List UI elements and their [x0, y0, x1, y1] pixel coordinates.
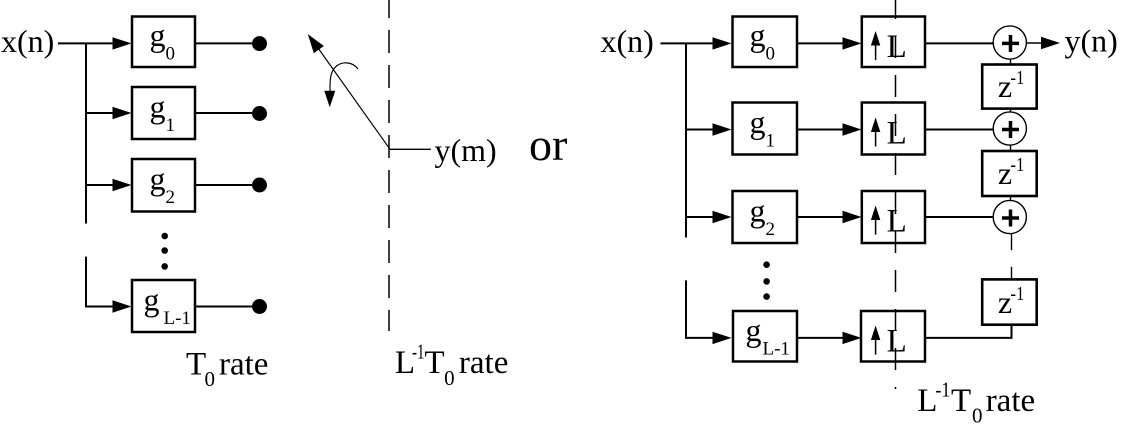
filter block right g2 — [733, 191, 798, 243]
delay block z2 — [982, 151, 1036, 196]
commutator contact dot rowL-1 — [252, 299, 267, 314]
upsampler block row1 — [862, 103, 925, 155]
svg-text:-1: -1 — [1010, 284, 1024, 305]
svg-text:L: L — [887, 204, 907, 240]
wire x(n) input horizontal — [58, 42, 118, 44]
wire x(n) input horizontal right — [661, 42, 719, 44]
rotation direction arc — [330, 63, 358, 91]
svg-text:0: 0 — [972, 404, 983, 428]
label L-1 T0 rate right — [917, 378, 1035, 428]
delay block z1 — [982, 65, 1036, 109]
wire upsamplerL-1 to delay z3 — [925, 325, 1012, 338]
svg-text:0: 0 — [205, 367, 216, 391]
svg-text:g: g — [750, 17, 766, 53]
filter block right g1 — [733, 103, 798, 155]
wire gL-1 output — [195, 306, 252, 308]
wire branch to g2 — [86, 184, 118, 186]
wire g1 output — [195, 112, 252, 114]
arrowhead into right g1 — [713, 123, 732, 135]
arrowhead into upsampler1 — [843, 123, 862, 135]
svg-text:g: g — [144, 282, 160, 318]
wire right g0 to upsampler0 — [797, 42, 848, 44]
wire adder1 to y(n) — [1026, 42, 1046, 44]
wire adder1 to z1 — [1010, 59, 1012, 65]
adder 2 — [993, 112, 1026, 145]
rate boundary dashed line right — [895, 0, 897, 389]
vertical ellipsis dots left — [161, 233, 168, 270]
wire upsampler0 to adder1 — [925, 42, 993, 44]
arrowhead into g0 — [113, 37, 132, 49]
wire upsampler1 to adder2 — [925, 129, 993, 131]
wire right input bus upper segment — [685, 43, 687, 237]
arrowhead into upsampler0 — [843, 37, 862, 49]
wire adder2 to z2 — [1010, 145, 1012, 151]
wire upsampler2 to adder3 — [925, 216, 993, 218]
rotation arc arrowhead — [324, 91, 335, 108]
svg-text:-1: -1 — [1010, 68, 1024, 89]
svg-text:0: 0 — [444, 366, 455, 390]
svg-text:T: T — [424, 345, 444, 381]
commutator contact dot row2 — [252, 178, 267, 193]
commutator contact dot row0 — [252, 36, 267, 51]
arrowhead into g2 — [113, 179, 132, 191]
wire right g2 to upsampler2 — [797, 216, 848, 218]
rotating switch arm wire — [312, 40, 390, 150]
svg-text:0: 0 — [166, 44, 176, 65]
wire right g1 to upsampler1 — [797, 129, 848, 131]
wire z2 to adder3 — [1010, 196, 1012, 201]
wire branch to right g2 — [686, 216, 718, 218]
wire adder3 to z3 lower tick — [1011, 267, 1013, 280]
wire right gL-1 to upsamplerL-1 — [797, 337, 848, 339]
svg-text:L-1: L-1 — [763, 339, 790, 360]
upsampler block row2 — [862, 191, 925, 243]
wire branch to right g1 — [686, 129, 718, 131]
svg-text:rate: rate — [459, 345, 508, 381]
wire right input bus lower segment — [686, 280, 718, 338]
svg-text:1: 1 — [766, 131, 776, 152]
svg-text:x(n): x(n) — [601, 23, 654, 59]
arrowhead into right gL-1 — [713, 332, 732, 344]
svg-text:L: L — [887, 116, 907, 152]
wire g2 output — [195, 184, 252, 186]
svg-text:x(n): x(n) — [1, 23, 54, 59]
arrowhead into upsamplerL-1 — [843, 332, 862, 344]
svg-text:g: g — [150, 161, 166, 197]
delay block z3 — [982, 279, 1036, 324]
svg-text:-1: -1 — [935, 378, 950, 402]
svg-text:g: g — [150, 89, 166, 125]
svg-text:rate: rate — [219, 346, 268, 382]
wire switch pivot to y(m) — [390, 148, 431, 150]
svg-text:g: g — [750, 104, 766, 140]
wire z1 to adder2 — [1010, 109, 1012, 112]
svg-text:g: g — [750, 193, 766, 229]
wire input bus vertical lower segment — [86, 257, 118, 307]
svg-text:L: L — [887, 29, 907, 65]
commutator contact dot row1 — [252, 106, 267, 121]
filter block right gL-1 — [733, 311, 797, 362]
svg-text:-1: -1 — [1010, 155, 1024, 176]
arrowhead into upsampler2 — [843, 211, 862, 223]
svg-text:rate: rate — [986, 383, 1035, 419]
rate boundary dashed line left — [388, 0, 390, 331]
vertical ellipsis dots right — [763, 261, 770, 300]
svg-text:g: g — [150, 17, 166, 53]
filter block g0 — [132, 17, 195, 68]
filter block g2 — [132, 159, 195, 212]
svg-text:2: 2 — [766, 219, 776, 240]
arrowhead into g1 — [113, 107, 132, 119]
svg-text:2: 2 — [166, 187, 176, 208]
svg-text:or: or — [529, 119, 567, 170]
upsampler block row0 — [862, 17, 925, 68]
upsampler block rowL-1 — [861, 311, 925, 362]
svg-text:L-1: L-1 — [164, 308, 191, 329]
svg-text:y(n): y(n) — [1065, 23, 1118, 59]
wire adder3 to z3 upper tick — [1011, 234, 1013, 250]
svg-text:0: 0 — [766, 44, 776, 65]
svg-text:1: 1 — [166, 115, 176, 136]
filter block right g0 — [733, 17, 798, 68]
arrowhead into gL-1 — [113, 300, 132, 312]
svg-text:g: g — [746, 312, 762, 348]
svg-text:y(m): y(m) — [435, 132, 497, 168]
filter block g1 — [132, 87, 195, 139]
label T0 rate — [186, 346, 268, 391]
wire input bus vertical upper segment — [85, 43, 87, 223]
svg-text:-1: -1 — [412, 340, 425, 364]
wire g0 output — [195, 42, 252, 44]
svg-text:L: L — [887, 324, 907, 360]
svg-text:T: T — [186, 346, 206, 382]
arrowhead to y(n) — [1041, 37, 1060, 49]
arrowhead into right g0 — [713, 37, 732, 49]
arrowhead into right g2 — [713, 211, 732, 223]
filter block gL-1 — [132, 280, 195, 332]
label L-1 T0 rate middle — [395, 340, 508, 391]
svg-text:T: T — [951, 383, 971, 419]
adder 3 — [993, 200, 1026, 233]
switch arm arrowhead — [308, 34, 324, 53]
wire branch to g1 — [86, 112, 118, 114]
adder 1 — [993, 26, 1026, 59]
